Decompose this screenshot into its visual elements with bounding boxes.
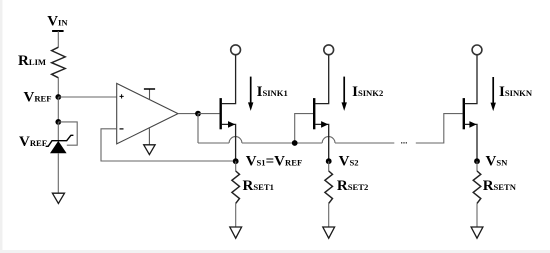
transistor Q2 channel bar bbox=[313, 98, 315, 129]
wire VREF node to op-amp plus input bbox=[58, 96, 116, 98]
ground below zener bbox=[52, 193, 64, 203]
terminal VIN bar bbox=[52, 30, 64, 32]
node zener cathode junction dot bbox=[55, 119, 61, 125]
ellipsis continuation dots bbox=[401, 142, 402, 144]
transistor QN source leg bbox=[465, 124, 477, 161]
transistor Q1 channel bar bbox=[219, 98, 221, 129]
wire reference loop of shunt reference bbox=[58, 122, 77, 145]
node VS1 junction dot bbox=[233, 158, 239, 164]
wire gate of Q1 bbox=[198, 113, 219, 115]
transistor Q2 source arrow bbox=[321, 121, 328, 128]
node gate bus junction dot Q2 bbox=[292, 140, 298, 146]
transistor QN channel bar bbox=[463, 98, 465, 129]
ground below RSET1 bbox=[230, 227, 242, 238]
resistor RSET1 bbox=[232, 171, 240, 203]
transistor Q2 source leg bbox=[315, 124, 329, 161]
wire cathode to zener bar bbox=[57, 122, 59, 140]
wire gate bus hump over Q1 source bbox=[229, 137, 242, 143]
transistor QN source arrow bbox=[469, 121, 476, 128]
op-amp minus sign bbox=[120, 128, 124, 130]
transistor Q2 drain leg bbox=[315, 55, 329, 103]
op-amp power stub bbox=[149, 89, 151, 100]
current arrow ISINKN bbox=[492, 77, 494, 105]
ground below op-amp bbox=[144, 145, 155, 155]
wire RSETN to ground bbox=[476, 203, 478, 227]
wire gate riser of Q2 bbox=[295, 114, 313, 143]
transistor QN drain leg bbox=[465, 55, 477, 103]
zener diode VREF anode triangle bbox=[50, 141, 67, 153]
wire gate bus segment 2 bbox=[242, 142, 322, 144]
wire gate bus hump over Q2 source bbox=[322, 137, 335, 143]
wire gate bus segment 1 bbox=[198, 142, 229, 144]
transistor Q1 source arrow bbox=[228, 121, 235, 128]
node op-amp output junction dot bbox=[195, 111, 201, 117]
ground below RSET2 bbox=[323, 227, 335, 238]
wire VIN to RLIM bbox=[57, 31, 59, 47]
op-amp power bar bbox=[144, 88, 155, 90]
current arrow ISINK2 bbox=[343, 77, 345, 105]
wire RLIM to VREF node bbox=[57, 78, 59, 97]
resistor RLIM bbox=[52, 47, 66, 78]
node VS2 junction dot bbox=[326, 158, 332, 164]
ground below RSETN bbox=[471, 227, 483, 238]
transistor Q1 drain leg bbox=[222, 55, 236, 103]
bottom edge artifact bbox=[0, 250, 550, 253]
node VSN junction dot bbox=[474, 158, 480, 164]
wire VSN to RSETN bbox=[476, 161, 478, 171]
wire gate bus drop bbox=[197, 114, 199, 143]
zener diode VREF cathode bar bbox=[46, 135, 74, 146]
op-amp ground stub bbox=[148, 128, 150, 145]
resistor RSETN bbox=[473, 171, 481, 203]
wire VS2 to RSET2 bbox=[328, 161, 330, 171]
wire op-amp output bbox=[178, 113, 198, 115]
wire VREF node down to zener node bbox=[57, 97, 59, 122]
wire gate bus segment 4 to QN bbox=[416, 114, 463, 143]
terminal circle stage 1 bbox=[231, 45, 241, 55]
current arrow ISINK1 bbox=[250, 77, 252, 105]
left edge artifact bbox=[0, 0, 3, 253]
op-amp U1 body bbox=[117, 83, 178, 143]
terminal circle stage 2 bbox=[324, 45, 334, 55]
wire feedback from minus input bbox=[101, 129, 236, 161]
wire RSET1 to ground bbox=[235, 203, 237, 227]
terminal circle stage N bbox=[472, 45, 482, 55]
resistor RSET2 bbox=[325, 171, 333, 203]
op-amp plus sign bbox=[120, 94, 124, 98]
wire VS1 to RSET1 bbox=[235, 161, 237, 171]
transistor Q1 source leg bbox=[222, 124, 236, 161]
wire zener anode to ground bbox=[57, 153, 59, 193]
wire gate bus segment 3 bbox=[335, 142, 394, 144]
wire RSET2 to ground bbox=[328, 203, 330, 227]
node VREF junction dot bbox=[55, 94, 61, 100]
